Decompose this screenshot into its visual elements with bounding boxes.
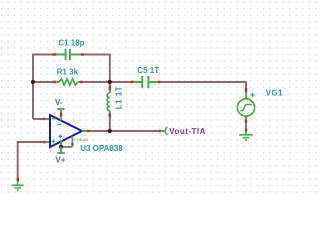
svg-text:V-: V- xyxy=(55,98,63,107)
svg-text:PDBAR: PDBAR xyxy=(74,137,88,142)
op-amp U3 (OPA838) xyxy=(43,112,90,147)
node: junction at output / L1 xyxy=(108,129,112,133)
wire: V+ to PDBAR tie xyxy=(61,146,72,148)
node: junction at right vertical / R1 row xyxy=(108,80,112,84)
node: junction at left vertical / R1 row xyxy=(31,80,35,84)
pin: output stub xyxy=(82,130,87,132)
wire: output row from op-amp to terminal xyxy=(90,130,159,132)
svg-text:C5 1T: C5 1T xyxy=(137,66,159,75)
power tap V- xyxy=(57,109,64,113)
input minus mark xyxy=(52,118,56,120)
wire: R1 row left stub from node xyxy=(33,81,53,83)
wire: non-inverting input segment + left drop to ground xyxy=(18,142,44,181)
triangle body xyxy=(50,115,82,147)
wire: inverting input segment xyxy=(33,118,43,120)
input plus mark xyxy=(52,140,56,144)
node: junction at V+ pin xyxy=(59,145,63,149)
plus polarity mark xyxy=(251,93,255,97)
supply minus mark xyxy=(58,123,62,125)
pin: V- (top) xyxy=(60,112,62,120)
ground GND1 (bottom-left) xyxy=(12,177,24,190)
pin: PDBAR stub xyxy=(71,136,73,147)
inductor L1 xyxy=(107,87,111,118)
svg-text:L1 1T: L1 1T xyxy=(114,86,123,109)
wire: L1 to output row xyxy=(109,117,111,131)
wire: left feedback vertical + top-left segment to C1 xyxy=(33,55,53,120)
svg-text:Vout-TIA: Vout-TIA xyxy=(169,127,206,136)
pin: non-inverting input tick xyxy=(43,141,46,143)
voltage source VG1 xyxy=(237,88,254,123)
wire: R1 to C5 segment xyxy=(83,81,131,83)
ground GND2 (under VG1) xyxy=(239,129,252,140)
resistor R1 xyxy=(53,79,83,85)
wire: top-right segment from C1 to right vertical xyxy=(84,55,110,87)
capacitor C5 xyxy=(131,76,161,88)
wire: VG1 to ground xyxy=(245,123,247,129)
terminal Vout-TIA xyxy=(159,127,168,134)
svg-text:C1 18p: C1 18p xyxy=(58,38,84,47)
wire: C5 to VG1 segment xyxy=(161,82,246,88)
pin: V+ (bottom) xyxy=(60,141,62,147)
pin: inverting input tick xyxy=(43,118,46,120)
svg-text:VG1: VG1 xyxy=(266,89,284,98)
svg-text:U3 OPA838: U3 OPA838 xyxy=(80,144,123,153)
capacitor C1 xyxy=(53,49,85,60)
svg-text:R1 3k: R1 3k xyxy=(57,67,79,76)
supply plus mark xyxy=(58,135,62,139)
power tap V+ xyxy=(57,147,65,153)
svg-text:V+: V+ xyxy=(55,156,65,165)
